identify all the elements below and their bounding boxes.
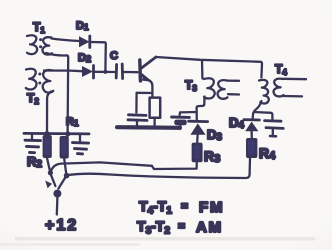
capacitor to ground right xyxy=(265,121,284,137)
transistor Q1 xyxy=(140,57,156,82)
label formula FM xyxy=(139,198,224,217)
label R1 xyxy=(66,116,79,128)
svg-text:=: = xyxy=(181,199,188,213)
wire R1 bottom to junction xyxy=(64,159,66,176)
transformer T4 primary winding xyxy=(259,80,269,104)
resistor emitter xyxy=(150,98,161,127)
wire emitter down xyxy=(150,81,153,98)
svg-text:C: C xyxy=(110,50,118,62)
label D4 xyxy=(229,115,244,131)
transformer T2 primary winding xyxy=(26,69,37,90)
transformer T3 primary winding xyxy=(204,78,215,98)
transformer T2 core dots xyxy=(38,73,41,85)
diode D1 xyxy=(79,36,90,48)
label T3 xyxy=(185,78,197,93)
transformer T2 secondary winding xyxy=(43,70,54,92)
wire T3 primary bottom jog xyxy=(197,97,205,121)
wire R3 bottom to left xyxy=(152,162,197,169)
label R3 xyxy=(204,148,220,165)
label formula AM xyxy=(137,218,223,237)
label D3 xyxy=(207,127,222,143)
wire T3 primary tap xyxy=(201,61,204,79)
transformer T1 secondary winding xyxy=(43,37,52,54)
svg-text:AM: AM xyxy=(196,219,223,236)
svg-text:FM: FM xyxy=(199,199,224,216)
wire T4 secondary bottom lead xyxy=(283,95,302,98)
label D1 xyxy=(76,20,89,32)
ground symbol right xyxy=(73,134,89,154)
label T1 xyxy=(33,20,45,35)
wire C to transistor base xyxy=(124,71,138,73)
capacitor emitter bypass xyxy=(128,115,147,127)
wire R2 bottom to junction xyxy=(47,158,50,172)
resistor R2 xyxy=(43,135,52,158)
wire junction B to supply dot xyxy=(58,176,66,188)
transformer T1 primary winding xyxy=(27,35,37,54)
svg-text:=: = xyxy=(178,219,185,233)
wire T1 secondary bottom, down to R1 xyxy=(46,53,68,133)
diode D4 xyxy=(244,120,259,138)
wire D1 to corner down to D2 output xyxy=(91,42,106,71)
transformer T4 secondary winding xyxy=(274,79,284,97)
junction D1/D2 node xyxy=(103,70,107,74)
label R4 xyxy=(259,145,276,162)
diode D2 xyxy=(82,66,94,79)
wire down to emitter capacitor xyxy=(135,93,138,113)
wire T1 secondary top to D1 xyxy=(52,39,80,42)
node junction B xyxy=(64,173,70,179)
label D2 xyxy=(78,52,91,64)
label R2 xyxy=(27,154,42,170)
resistor R1 xyxy=(60,136,69,159)
wire T3 secondary bottom lead xyxy=(228,93,239,96)
label C xyxy=(110,50,118,62)
capacitor C xyxy=(116,64,122,79)
svg-text:D2: D2 xyxy=(78,52,91,64)
node junction A xyxy=(48,170,53,175)
ground rail left xyxy=(24,131,89,136)
wire supply stub xyxy=(56,198,59,215)
ground symbol left xyxy=(25,134,41,153)
wire T4 secondary top lead xyxy=(284,78,307,81)
wire collector top rail to T4 xyxy=(156,57,262,78)
node +12 supply dot xyxy=(53,190,61,198)
wire T4 primary bottom to D4 xyxy=(253,101,262,119)
bypass diode left of D3 xyxy=(172,117,190,129)
resistor R4 xyxy=(246,138,257,158)
label +12 xyxy=(45,217,78,234)
wire long upper feed xyxy=(51,162,152,172)
ground rail emitter xyxy=(117,125,180,130)
wire T2 secondary top to D2 xyxy=(44,69,82,72)
wire T2 secondary bottom down to R2 xyxy=(47,92,51,134)
arrowhead supply xyxy=(45,181,52,189)
wire long lower feed xyxy=(67,158,250,178)
label T2 xyxy=(27,91,39,106)
diode D3 xyxy=(189,121,208,142)
transformer T3 secondary winding xyxy=(218,80,228,99)
wire junction A to supply dot xyxy=(50,173,55,186)
label T4 xyxy=(275,62,287,77)
wire branch to right capacitor xyxy=(254,112,272,119)
wire emitter branch horizontal xyxy=(137,92,153,94)
resistor R3 xyxy=(192,143,203,163)
svg-text:+12: +12 xyxy=(45,217,78,234)
wire T3 secondary top lead xyxy=(227,79,239,82)
wire D2 to capacitor C xyxy=(95,71,115,73)
transformer T1 core dots xyxy=(39,38,42,48)
wire branch to bypass diode xyxy=(180,112,197,115)
